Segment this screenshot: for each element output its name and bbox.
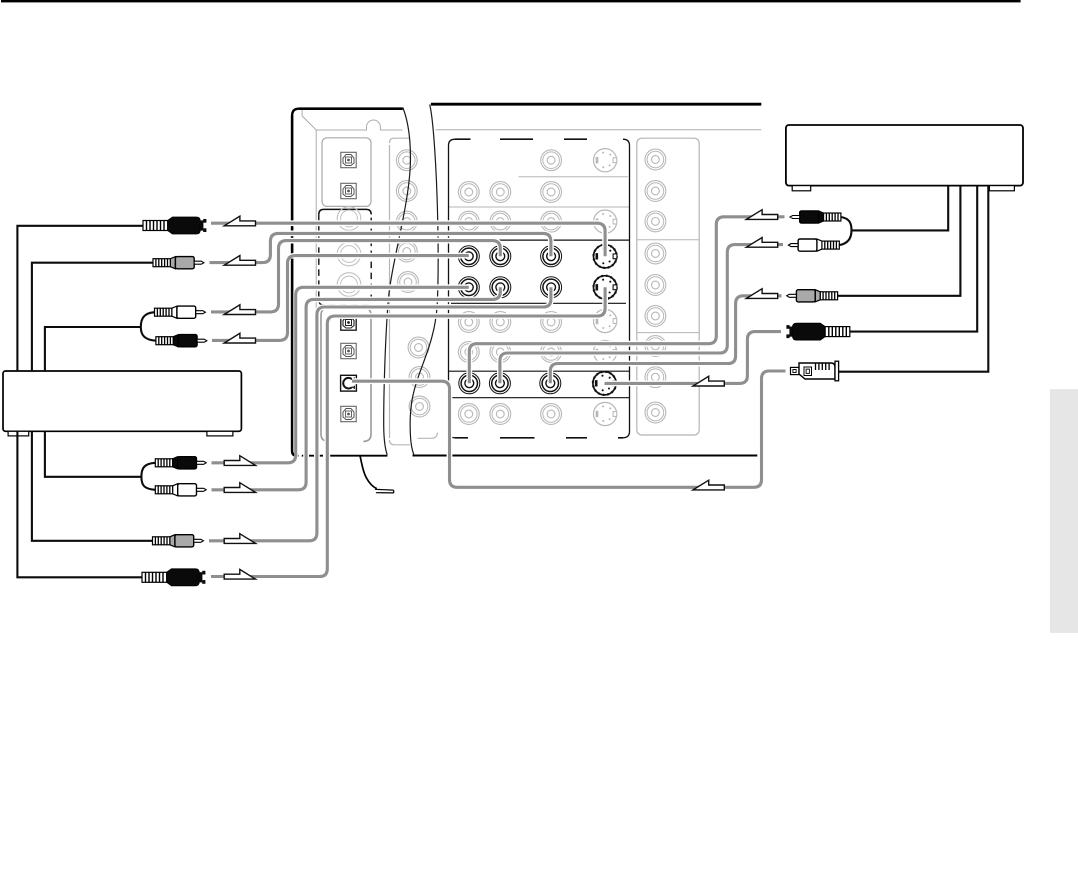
highlighted optical connector <box>341 375 357 391</box>
plug 1: s-video black (left upper) <box>143 217 206 234</box>
cable left s-video to MONITOR s-video <box>211 223 605 256</box>
separator above row C <box>449 370 630 372</box>
panel top edge left section <box>299 107 403 110</box>
coax jack 2 <box>337 242 361 266</box>
cord plug8 to left box <box>17 431 142 577</box>
right group separator 1 <box>637 239 699 241</box>
right jack group box <box>637 138 699 435</box>
tear curve B <box>410 105 438 455</box>
cord plug7 to left box <box>32 431 153 541</box>
center row4 jacks <box>458 312 479 333</box>
row C audio jack 2 <box>489 373 510 394</box>
plug 3: RCA white <box>155 306 206 318</box>
cord R5 to right box <box>839 186 989 372</box>
plug 7: RCA gray <box>153 535 204 547</box>
inner vertical edge left section <box>315 130 317 392</box>
arrow on cable 3 <box>224 305 255 315</box>
row C video jack <box>540 373 561 394</box>
left device box <box>3 371 241 431</box>
left device foot 2 <box>207 431 233 436</box>
row A s-video jack <box>594 245 617 268</box>
cord plug2 to left box <box>32 263 153 371</box>
group2 rounded box (partial, torn) <box>390 138 411 445</box>
cord pair 3+4 stem to left box <box>45 327 141 371</box>
AC power cord <box>360 456 377 489</box>
row B video jack <box>541 277 562 298</box>
cord pair 5+6 Y branches <box>141 463 155 490</box>
plug R5: optical TOSLINK <box>791 361 839 381</box>
plug 6: RCA white <box>155 484 206 496</box>
panel bottom dash-dot line left section <box>297 455 387 457</box>
left device foot 1 <box>8 431 29 436</box>
plug R2: RCA white <box>788 239 839 251</box>
cord R3 to right box <box>838 186 961 296</box>
separator above highlighted rows <box>449 239 630 241</box>
cable right gray RCA to C3 <box>550 296 781 384</box>
center row5 jacks <box>458 342 479 363</box>
plug R3: RCA gray <box>787 290 838 302</box>
center group border left edge <box>449 139 456 438</box>
center row3 jacks <box>458 211 479 232</box>
cable right white RCA to C2 <box>500 245 783 384</box>
right group separator 2 <box>637 332 699 334</box>
cable left white RCA to A2 <box>211 241 500 312</box>
cable left lower black RCA to B1 <box>212 287 469 463</box>
inner bevel line top-left <box>302 110 316 130</box>
right jack column <box>645 149 666 170</box>
center group dashed bottom border <box>455 437 623 439</box>
cable left gray RCA to video A3 <box>210 233 551 262</box>
arrow on cable 8 <box>224 569 255 579</box>
arrow on optical run <box>693 480 724 490</box>
center row2 jacks <box>458 182 479 203</box>
group2 jack column <box>396 150 417 171</box>
cord pair 5+6 stem to left box <box>45 431 141 477</box>
arrow on cable 4 <box>224 333 255 343</box>
optical icon IN 2 <box>341 183 356 198</box>
plug 2: RCA gray <box>153 257 204 269</box>
row B component jack 2 <box>490 277 511 298</box>
cable left black RCA to A1 <box>212 256 469 341</box>
right device box <box>786 125 1023 186</box>
center group separator gray 2 <box>449 206 630 208</box>
right margin tab <box>1050 389 1078 633</box>
row A video jack <box>541 246 562 267</box>
center group separator gray 1 <box>519 176 628 178</box>
arrow on cable 1 <box>224 216 255 226</box>
row A component jack 1 <box>458 246 479 267</box>
optical icon IN 1 <box>341 152 356 167</box>
cable left lower s-video to B4 <box>211 287 605 576</box>
center group dashed top border <box>455 138 587 140</box>
center row1 s-video <box>594 149 617 172</box>
arrow on cable R3 <box>746 289 777 299</box>
inner top line with mounting tab bump <box>316 120 402 130</box>
cable left lower gray RCA to B3 <box>209 287 551 541</box>
panel left edge redraw (over casing, with cable gaps) <box>292 116 297 456</box>
cable right s-video to C4 <box>605 332 782 384</box>
cord R4 to right box <box>850 186 977 332</box>
center row1 jack <box>541 150 562 171</box>
center row6 jacks <box>458 404 479 425</box>
arrow on cable R2 <box>746 238 777 248</box>
cord plug1 to left box <box>17 226 143 371</box>
inner top line right section <box>436 129 762 131</box>
right device foot 1 <box>792 186 811 191</box>
plug 4: RCA black <box>156 335 207 347</box>
cord pair R1+R2 stem to right box <box>852 186 949 231</box>
plug 5: RCA black (left lower) <box>155 457 206 469</box>
plug R1: RCA black (right) <box>790 211 841 223</box>
arrow on cable R4 run <box>693 376 724 386</box>
center group border right edge <box>623 139 630 438</box>
cable right black RCA to C1 <box>469 217 784 383</box>
row B component jack 1 <box>458 277 479 298</box>
coax jack 1 <box>337 207 361 231</box>
cord pair R1+R2 Y branches <box>839 217 851 245</box>
row C audio jack 1 <box>459 373 480 394</box>
optical icon TV <box>341 343 356 358</box>
optical icon MD (gray, below connected one) <box>341 406 356 421</box>
group2 right fragment bottom corner <box>418 433 438 439</box>
AC cord plug tip <box>375 489 394 493</box>
panel top-left corner and left edge <box>292 109 299 456</box>
plug 8: s-video black <box>142 569 205 586</box>
tear curve A <box>384 108 411 455</box>
arrow on cable R1 <box>746 210 777 220</box>
row A component jack 2 <box>490 246 511 267</box>
lower digital group box <box>321 308 371 442</box>
panel top edge right section <box>431 103 761 106</box>
coax jack 3 <box>337 273 361 297</box>
page header rule <box>1 0 1021 2</box>
row B s-video jack <box>594 276 617 299</box>
arrow on cable 5 <box>224 456 255 466</box>
optical icon DVD dark <box>341 315 356 330</box>
arrow on cable 6 <box>224 483 255 493</box>
arrow on cable 2 <box>224 256 255 266</box>
panel bottom edge right section <box>413 455 758 457</box>
cable left lower white RCA to B2 <box>212 287 501 490</box>
coax group box (highlighted black) <box>319 209 371 214</box>
right device foot 2 <box>989 186 1014 191</box>
row C s-video jack <box>593 372 616 395</box>
arrow on cable 7 <box>224 534 255 544</box>
plug R4: s-video black <box>786 323 849 340</box>
optical group box (top left) <box>322 138 371 207</box>
cable right optical to DIGITAL IN <box>352 371 786 487</box>
separator below row B <box>451 302 626 304</box>
cord pair 3+4 Y branches <box>141 312 156 341</box>
separator below row C <box>449 397 630 399</box>
